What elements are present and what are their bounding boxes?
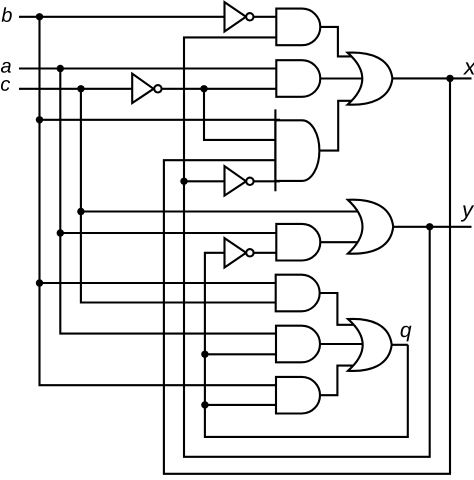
- wire b input line: [19, 16, 225, 18]
- wire AND6 output to OR3: [320, 343, 365, 345]
- and-gate AND4: [276, 224, 320, 261]
- wire c branch to OR2: [81, 210, 362, 212]
- wire y feedback to NOT3: [184, 180, 225, 182]
- or-gate OR1: [348, 53, 393, 105]
- wire q branch to AND7: [205, 404, 280, 406]
- and-gate AND3: [275, 120, 319, 181]
- junction dot a line: [57, 65, 64, 72]
- or-gate OR3: [348, 319, 392, 371]
- wire a branch to AND4: [60, 232, 280, 234]
- wire notc output to AND2: [162, 88, 280, 90]
- wire NOT3 output to AND3: [254, 180, 280, 182]
- junction dot b to AND5: [36, 279, 43, 286]
- wire y feedback rail: [184, 37, 430, 456]
- junction dot x output: [446, 75, 453, 82]
- wire b vertical rail: [40, 17, 277, 385]
- wire notc branch to AND3: [204, 89, 280, 140]
- inverter NOT3: [225, 166, 254, 195]
- inverter NOT2: [132, 74, 161, 103]
- junction dot b line: [36, 13, 43, 20]
- junction dot c line: [77, 85, 84, 92]
- or-gate OR2: [348, 200, 393, 254]
- junction dot y feedback to NOT3: [180, 178, 187, 185]
- wire AND5 output to OR3: [320, 293, 360, 325]
- junction dot q to AND6: [201, 351, 208, 358]
- junction dot notc to AND3: [200, 85, 207, 92]
- junction dot a to AND4: [57, 229, 64, 236]
- and-gate AND2: [276, 60, 320, 97]
- wire AND1 output to OR1: [320, 27, 356, 57]
- output label x: [463, 62, 474, 74]
- input label a: [1, 62, 11, 73]
- wire a input line: [19, 67, 276, 69]
- and-gate AND3 input bar: [274, 109, 276, 191]
- and-gate AND7: [276, 377, 320, 414]
- wire AND4 output to OR2: [320, 241, 365, 243]
- input label c: [1, 80, 10, 91]
- wire b branch to AND5: [40, 282, 281, 284]
- inverter NOT1: [225, 2, 254, 31]
- wire AND3 output to OR1: [319, 101, 356, 151]
- wire x feedback rail: [164, 78, 450, 473]
- inverter NOT4: [225, 238, 254, 267]
- wire b branch to AND3: [40, 119, 281, 121]
- wire q branch to AND6: [205, 353, 280, 355]
- and-gate AND5: [276, 275, 320, 312]
- input label b: [2, 7, 12, 22]
- wire OR2 output y: [393, 226, 471, 228]
- wire NOT4 output to AND4: [254, 252, 280, 254]
- wire AND7 output to OR3: [320, 366, 360, 396]
- and-gate AND1: [276, 9, 320, 46]
- wire AND2 output to OR1: [320, 77, 365, 79]
- wire q feedback rail: [205, 253, 408, 437]
- output label y: [461, 205, 474, 221]
- wire OR3 output q: [392, 344, 408, 346]
- output label q: [401, 326, 412, 342]
- wire OR1 output x: [392, 77, 471, 79]
- and-gate AND6: [276, 326, 320, 363]
- wire c vertical rail: [81, 89, 280, 303]
- junction dot c to OR2: [77, 208, 84, 215]
- wire a vertical rail: [60, 69, 280, 334]
- junction dot y output: [426, 223, 433, 230]
- junction dot b to AND3: [36, 116, 43, 123]
- wire NOT1 output to AND1: [254, 16, 281, 18]
- wire c input line: [19, 88, 132, 90]
- junction dot q to AND7: [201, 401, 208, 408]
